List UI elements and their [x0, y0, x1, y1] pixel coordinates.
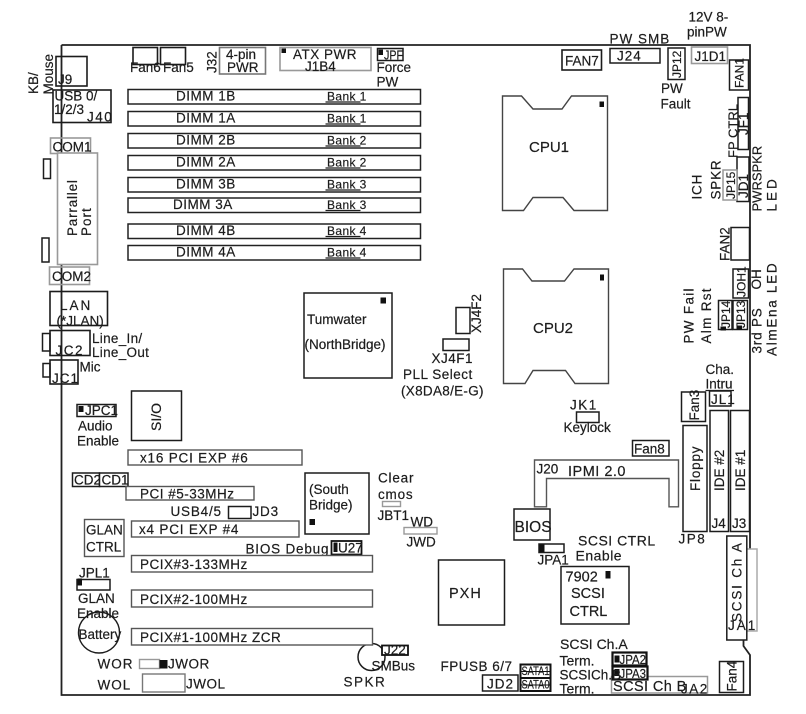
svg-text:J1D1: J1D1 [695, 49, 727, 64]
jumper JPA1 [538, 544, 569, 568]
slot PCIX#3-133MHz [132, 556, 373, 573]
connector JC1 [50, 360, 79, 386]
svg-text:DIMM 4A: DIMM 4A [176, 244, 236, 259]
svg-text:PW SMB: PW SMB [610, 32, 671, 47]
svg-text:SCSI: SCSI [571, 586, 605, 602]
svg-text:GLAN: GLAN [86, 523, 123, 538]
svg-text:Bank 1: Bank 1 [327, 111, 367, 125]
svg-text:XJ4F2: XJ4F2 [469, 294, 484, 333]
svg-text:Tumwater: Tumwater [307, 312, 367, 327]
jumper XJ4F1 [432, 339, 474, 366]
svg-text:DIMM 2A: DIMM 2A [176, 154, 236, 169]
svg-text:Bank 1: Bank 1 [327, 89, 367, 103]
connector JC2 [50, 331, 90, 359]
connector SATA0 [521, 678, 551, 692]
svg-text:CTRL: CTRL [86, 540, 122, 555]
port nub [43, 364, 50, 378]
svg-text:Alm Rst: Alm Rst [699, 287, 714, 343]
jumper JBT1 Clear cmos [378, 471, 415, 524]
svg-text:PXH: PXH [449, 586, 482, 602]
svg-text:Line_Out: Line_Out [92, 345, 149, 360]
svg-text:Bank 4: Bank 4 [327, 245, 367, 259]
svg-text:CD2: CD2 [74, 473, 101, 488]
svg-text:SCSI Ch.A: SCSI Ch.A [560, 636, 628, 652]
connector J22 SMBus [372, 643, 416, 674]
jumper JWOL [98, 674, 226, 693]
svg-text:Term.: Term. [560, 681, 595, 697]
svg-text:Keylock: Keylock [564, 420, 612, 435]
svg-text:Mic: Mic [80, 360, 101, 375]
svg-text:J1B4: J1B4 [305, 59, 336, 74]
jumper JPL1 [77, 566, 119, 622]
connector COM1 [51, 138, 92, 155]
DIMM 3B slot [128, 176, 421, 192]
svg-text:WOR: WOR [98, 657, 134, 672]
svg-text:Fan5: Fan5 [163, 60, 194, 75]
connector COM2 [50, 267, 92, 285]
SCSI channel B connector JA2 [612, 677, 709, 697]
svg-text:CTRL: CTRL [570, 604, 608, 620]
svg-text:Bank 3: Bank 3 [327, 177, 367, 191]
svg-text:DIMM 1A: DIMM 1A [176, 110, 236, 125]
connector CD1 [100, 473, 129, 488]
svg-text:JC1: JC1 [52, 371, 79, 386]
jumper JK1 Keylock [564, 398, 612, 436]
svg-text:DIMM 1B: DIMM 1B [176, 88, 236, 103]
svg-text:PWR: PWR [227, 60, 259, 75]
svg-text:cmos: cmos [378, 487, 413, 502]
connector JD2 [483, 675, 519, 692]
svg-text:PCI #5-33MHz: PCI #5-33MHz [140, 487, 235, 502]
svg-text:JD3: JD3 [253, 504, 279, 519]
Tumwater NorthBridge U1 [304, 293, 392, 378]
slot x4 PCI EXP #4 [132, 521, 300, 537]
svg-text:pinPW: pinPW [687, 25, 727, 40]
svg-text:Floppy: Floppy [688, 446, 703, 491]
svg-text:Fan8: Fan8 [634, 442, 665, 457]
svg-text:SPKR: SPKR [344, 675, 387, 690]
jumper XJ4F2 [456, 294, 484, 334]
svg-text:SCSI CTRL: SCSI CTRL [578, 533, 656, 549]
svg-text:JPA3: JPA3 [620, 666, 647, 681]
jumper JWD [404, 515, 437, 550]
floppy connector [683, 426, 707, 532]
DIMM 2B slot [128, 132, 421, 148]
svg-text:Term.: Term. [560, 653, 595, 669]
svg-text:Bridge): Bridge) [309, 498, 353, 513]
svg-text:USB4/5: USB4/5 [171, 504, 222, 519]
svg-text:J20: J20 [537, 462, 559, 477]
DIMM 2A slot [128, 154, 421, 170]
7902 SCSI CTRL chip [561, 567, 629, 625]
slot PCIX#2-100MHz [132, 590, 373, 607]
jumper JP13 [733, 300, 748, 330]
connector SATA1 [521, 665, 551, 679]
svg-text:AlmEna LED: AlmEna LED [765, 262, 780, 356]
svg-text:JA1: JA1 [728, 618, 757, 633]
svg-text:JBT1: JBT1 [378, 508, 410, 523]
jumper JPA2 [613, 652, 647, 667]
svg-text:3rd PS: 3rd PS [750, 307, 765, 353]
connector CD2 [73, 473, 102, 488]
svg-text:DIMM 3A: DIMM 3A [173, 197, 233, 212]
port nub [44, 159, 51, 179]
svg-text:Bank 3: Bank 3 [327, 198, 367, 212]
jumper JP14 [719, 300, 734, 330]
header JD1 [736, 157, 751, 202]
svg-text:(X8DA8/E-G): (X8DA8/E-G) [401, 384, 484, 399]
jumper JP15 [723, 170, 738, 200]
label SCSI Ch.A Term. SCSICh.B Term. [560, 636, 629, 697]
svg-text:Fan4: Fan4 [725, 660, 740, 691]
svg-text:XJ4F1: XJ4F1 [432, 351, 474, 366]
header JL1 [710, 391, 736, 407]
svg-text:ICH: ICH [690, 174, 705, 200]
svg-text:DIMM 3B: DIMM 3B [176, 176, 236, 191]
svg-text:LED: LED [765, 176, 780, 211]
svg-text:SI/O: SI/O [148, 403, 164, 431]
jumper JPF [377, 48, 412, 90]
svg-text:JP12: JP12 [670, 50, 684, 78]
svg-text:JK1: JK1 [570, 398, 598, 413]
port nub [42, 238, 49, 262]
svg-text:JA2: JA2 [681, 682, 709, 697]
svg-text:SCSI Ch A: SCSI Ch A [730, 541, 745, 622]
svg-text:12V 8-: 12V 8- [689, 10, 729, 25]
svg-text:JPA1: JPA1 [538, 553, 569, 568]
speaker SPKR [344, 644, 387, 690]
south bridge [305, 473, 369, 534]
svg-text:FPUSB 6/7: FPUSB 6/7 [441, 659, 513, 674]
svg-text:JOH1: JOH1 [735, 266, 749, 297]
fan header Fan4 [720, 660, 744, 692]
svg-text:SMBus: SMBus [372, 659, 416, 674]
header JF1 [736, 98, 751, 150]
svg-text:FAN7: FAN7 [565, 54, 599, 69]
svg-text:Bank 4: Bank 4 [327, 224, 367, 238]
svg-text:SCSI Ch B: SCSI Ch B [613, 679, 687, 695]
slot PCI #5-33MHz [126, 487, 254, 502]
svg-text:FAN1: FAN1 [733, 58, 747, 88]
GLAN controller [85, 520, 125, 557]
svg-text:(NorthBridge): (NorthBridge) [305, 337, 386, 352]
svg-text:JP15: JP15 [724, 171, 738, 199]
svg-text:JC2: JC2 [56, 343, 85, 358]
connector J1D1 [692, 47, 728, 64]
svg-text:(South: (South [309, 482, 349, 497]
svg-text:JP14: JP14 [719, 300, 733, 328]
slot PCIX#1-100MHz ZCR [132, 629, 373, 646]
connector J9 [56, 57, 87, 88]
svg-text:J9: J9 [58, 72, 72, 87]
jumper JWOR [98, 657, 210, 672]
svg-text:Intru: Intru [706, 377, 733, 392]
svg-text:Port: Port [79, 207, 94, 236]
svg-text:x4 PCI EXP #4: x4 PCI EXP #4 [139, 522, 239, 537]
svg-text:JWOR: JWOR [168, 657, 210, 672]
svg-text:1/2/3: 1/2/3 [54, 102, 84, 117]
fan header Fan5 [161, 48, 194, 76]
svg-text:DIMM 4B: DIMM 4B [176, 223, 236, 238]
chip U27 [332, 541, 363, 556]
svg-text:Cha.: Cha. [706, 362, 735, 377]
svg-text:PCIX#2-100MHz: PCIX#2-100MHz [140, 592, 248, 607]
svg-text:J32: J32 [205, 51, 220, 73]
CPU1 socket [503, 96, 608, 211]
svg-text:BIOS: BIOS [515, 519, 552, 536]
DIMM 4B slot [128, 223, 421, 239]
svg-text:LAN: LAN [60, 298, 92, 313]
IDE #2 connector J4 [710, 411, 729, 532]
svg-text:PCIX#3-133MHz: PCIX#3-133MHz [140, 557, 248, 572]
svg-text:PW Fail: PW Fail [682, 287, 697, 343]
svg-text:Fan3: Fan3 [687, 390, 702, 421]
svg-text:JPA2: JPA2 [620, 652, 647, 667]
svg-text:PWRSPKR: PWRSPKR [750, 146, 765, 212]
svg-text:JP8: JP8 [679, 532, 707, 547]
svg-text:JL1: JL1 [711, 392, 736, 407]
svg-text:(*JLAN): (*JLAN) [57, 314, 104, 329]
svg-text:GLAN: GLAN [78, 591, 115, 606]
fan header FAN7 [562, 50, 602, 70]
svg-text:CPU1: CPU1 [529, 139, 569, 156]
svg-text:Enable: Enable [77, 434, 119, 449]
svg-text:JPL1: JPL1 [79, 566, 110, 581]
svg-text:Parrallel: Parrallel [65, 179, 80, 236]
svg-text:Bank 2: Bank 2 [327, 133, 367, 147]
fan header Fan6 [130, 48, 161, 76]
svg-text:Enable: Enable [576, 548, 623, 564]
jumper JPA3 [613, 666, 648, 681]
svg-text:CPU2: CPU2 [533, 320, 573, 337]
svg-text:JWD: JWD [407, 535, 436, 550]
svg-text:JWOL: JWOL [186, 677, 226, 692]
BIOS chip [514, 509, 552, 540]
svg-text:J24: J24 [617, 49, 642, 64]
svg-text:Audio: Audio [78, 419, 113, 434]
connector J24 [610, 49, 660, 64]
IPMI 2.0 slot J20 [535, 460, 679, 507]
svg-text:IDE #2: IDE #2 [712, 450, 727, 491]
ATX PWR connector J1B4 [280, 47, 371, 74]
svg-text:Fan6: Fan6 [130, 60, 161, 75]
IDE #1 connector J3 [731, 411, 750, 532]
DIMM 1A slot [128, 110, 421, 126]
svg-text:IPMI 2.0: IPMI 2.0 [568, 464, 626, 480]
svg-text:7902: 7902 [566, 570, 598, 586]
svg-text:Battery: Battery [79, 627, 122, 642]
svg-text:J40: J40 [87, 110, 113, 125]
audio jumper JPC1 [77, 403, 119, 449]
svg-text:IDE #1: IDE #1 [733, 450, 748, 491]
SCSI channel A connector JA1 [727, 536, 757, 640]
connector LAN (*JLAN) [50, 292, 108, 329]
PXH chip [439, 560, 505, 625]
super IO chip SI/O [132, 391, 182, 441]
DIMM 4A slot [128, 244, 421, 260]
fan header FAN1 [730, 58, 749, 90]
jumper JP12 [668, 48, 685, 80]
svg-text:Fault: Fault [661, 97, 691, 112]
svg-text:PW: PW [661, 81, 683, 96]
battery [79, 612, 122, 653]
svg-text:Bank 2: Bank 2 [327, 155, 367, 169]
svg-text:OH: OH [749, 269, 764, 289]
CPU2 socket [504, 269, 609, 384]
svg-text:Force: Force [377, 60, 412, 75]
DIMM 1B slot [128, 88, 421, 104]
svg-text:J22: J22 [384, 643, 406, 658]
svg-text:PCIX#1-100MHz ZCR: PCIX#1-100MHz ZCR [140, 630, 281, 645]
DIMM 3A slot [128, 197, 421, 213]
4-pin PWR connector [220, 47, 266, 75]
svg-text:PW: PW [377, 75, 399, 90]
connector USB 0/1/2/3 J40 [53, 89, 113, 125]
port nub [43, 334, 51, 352]
svg-text:x16 PCI EXP #6: x16 PCI EXP #6 [140, 451, 249, 466]
svg-text:J3: J3 [732, 516, 746, 531]
slot x16 PCI EXP #6 [128, 450, 302, 466]
svg-text:DIMM 2B: DIMM 2B [176, 132, 236, 147]
svg-text:JD2: JD2 [487, 677, 514, 692]
jumper JOH1 [733, 266, 749, 298]
fan header FAN2 [718, 227, 750, 261]
svg-text:BIOS Debug: BIOS Debug [246, 542, 330, 557]
svg-text:PLL Select: PLL Select [403, 367, 473, 382]
svg-text:SPKR: SPKR [709, 160, 724, 200]
board outline [62, 45, 751, 549]
fan header Fan3 [682, 390, 706, 422]
svg-text:KB/: KB/ [26, 72, 41, 94]
parallel port [58, 153, 98, 265]
svg-text:JPC1: JPC1 [85, 403, 118, 418]
svg-text:CD1: CD1 [102, 473, 129, 488]
svg-text:COM2: COM2 [52, 269, 91, 284]
fan header Fan8 [633, 441, 670, 457]
svg-text:WOL: WOL [98, 678, 132, 693]
jumper JD3 [229, 504, 279, 519]
svg-text:Line_In/: Line_In/ [92, 331, 142, 346]
svg-text:U27: U27 [338, 541, 363, 556]
svg-text:FP CTRL: FP CTRL [726, 104, 741, 158]
svg-text:JP13: JP13 [734, 300, 748, 328]
svg-text:FAN2: FAN2 [718, 227, 733, 261]
svg-text:J4: J4 [712, 516, 727, 531]
svg-text:Clear: Clear [378, 471, 414, 486]
